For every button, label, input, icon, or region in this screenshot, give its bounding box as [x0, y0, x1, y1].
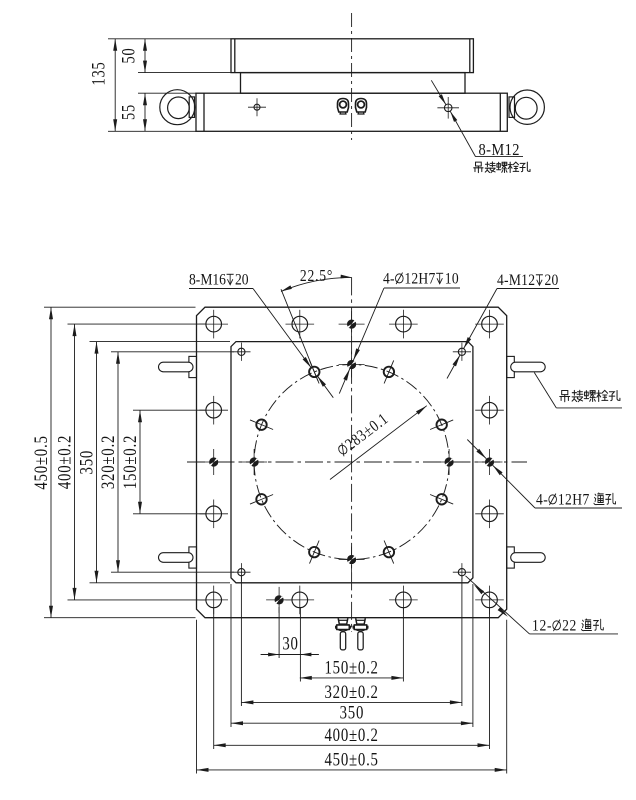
- svg-text:20: 20: [545, 272, 559, 289]
- extension lines 320 left: [111, 351, 234, 353]
- label d283±0.1 bolt circle diameter with radial arrow: [330, 406, 427, 480]
- svg-text:4-M12: 4-M12: [497, 272, 535, 289]
- hole 4-d12H7 depth10 (W, on bolt circle): [241, 449, 267, 475]
- hole 12-d22 through #5: [389, 310, 418, 339]
- hole 12-d22 through #12: [475, 500, 504, 529]
- leader 8-M12 lifting bolt holes (side view): [431, 80, 523, 156]
- hole 4-M12 depth20 #4: [453, 563, 471, 581]
- hole 12-d22 through #4: [286, 586, 315, 615]
- extension lines 450 bottom: [196, 620, 198, 774]
- dimension 30 (bottom, d12H7 offset): [261, 633, 319, 657]
- svg-text:320±0.2: 320±0.2: [324, 681, 378, 702]
- svg-text:150±0.2: 150±0.2: [324, 657, 378, 678]
- svg-text:30: 30: [282, 633, 298, 654]
- side view: left eyebolt: [160, 90, 195, 125]
- svg-text:22: 22: [562, 618, 577, 635]
- plan: inner square 350x350 (rotary platform) with chamfered corners: [231, 342, 473, 583]
- dimension 50 (upper block height): [118, 39, 231, 73]
- svg-text:4-: 4-: [536, 492, 548, 509]
- svg-text:12-: 12-: [532, 618, 552, 635]
- svg-text:400±0.2: 400±0.2: [324, 724, 378, 745]
- label 4-d12H7 depth10 with leader: [339, 271, 460, 394]
- side view: right grease nipple: [356, 99, 367, 115]
- hole 4-d12H7 through (top): [339, 311, 365, 337]
- extension lines 350 left: [90, 341, 231, 343]
- label lifting bolt holes CJK (side view): [474, 162, 530, 173]
- label 4-M12 depth20 with leader: [447, 272, 559, 378]
- hole 8-M16 depth20 #7 on bolt circle: [250, 420, 273, 430]
- svg-text:50: 50: [118, 48, 139, 64]
- dimension 400±0.2 (left): [54, 324, 77, 600]
- dimension 150±0.2 (left): [119, 410, 142, 514]
- hole 12-d22 through #7: [475, 310, 504, 339]
- svg-text:20: 20: [235, 272, 249, 289]
- lifting bolt handle (right bottom): [507, 547, 546, 568]
- hole 4-M12 depth20 #3: [232, 563, 250, 581]
- side view: small hole on slab: [248, 98, 266, 116]
- extension lines 30: [278, 607, 280, 658]
- svg-text:10: 10: [445, 271, 459, 288]
- svg-text:22.5°: 22.5°: [300, 267, 333, 286]
- svg-text:350: 350: [76, 450, 97, 475]
- svg-text:4-: 4-: [383, 271, 395, 288]
- side view: middle plate: [241, 73, 466, 94]
- side view: 8-M12 lifting bolt hole: [437, 97, 459, 119]
- hole 8-M16 depth20 #2 on bolt circle: [430, 420, 453, 430]
- svg-text:55: 55: [118, 104, 139, 120]
- 22.5 degree arc dimension: [281, 267, 352, 292]
- hole 4-d12H7 through (right): [477, 449, 503, 475]
- svg-text:450±0.5: 450±0.5: [324, 749, 378, 770]
- hole 8-M16 depth20 #3 on bolt circle: [430, 494, 453, 504]
- hole 8-M16 depth20 #8 on bolt circle: [309, 360, 319, 383]
- hole 12-d22 through #10: [475, 396, 504, 425]
- label 4-d12H7 through hole with leader: [467, 440, 622, 509]
- svg-text:8-M12: 8-M12: [479, 141, 520, 159]
- hole 12-d22 through #11: [199, 500, 228, 529]
- extension lines 450 left: [44, 306, 196, 308]
- dimension 450±0.5 (bottom): [197, 749, 507, 772]
- dimension 150±0.2 (bottom): [300, 657, 404, 680]
- hole 4-M12 depth20 #2: [453, 343, 471, 361]
- side view: left grease nipple: [338, 99, 349, 115]
- hole 12-d22 through #1: [199, 310, 228, 339]
- side view: base slab: [196, 93, 507, 131]
- hole 4-d12H7 depth10 (E, on bolt circle): [436, 449, 462, 475]
- grease plug (left, plan bottom): [335, 618, 351, 650]
- extension lines 350 bottom: [230, 584, 232, 727]
- dimension 320±0.2 (left): [97, 352, 120, 572]
- hole 8-M16 depth20 #1 on bolt circle: [384, 360, 394, 383]
- dimension 55 (slab height): [118, 93, 196, 131]
- svg-text:150±0.2: 150±0.2: [119, 435, 140, 489]
- plan: vertical centerline: [351, 277, 353, 632]
- hole 12-d22 through #8: [475, 586, 504, 615]
- hole 4-M12 depth20 #1: [232, 343, 250, 361]
- side view: vertical centerline: [351, 13, 353, 140]
- hole 4-d12H7 depth10 (N, on bolt circle): [339, 352, 365, 378]
- label 8-M12 (side view): [479, 141, 520, 159]
- plan: outer plate 450x450 with chamfered corners: [197, 307, 507, 618]
- hole 12-d22 through #3: [286, 310, 315, 339]
- extension lines 400 bottom: [213, 608, 215, 749]
- 22.5 degree radial line: [281, 289, 318, 381]
- hole 12-d22 through #9: [199, 396, 228, 425]
- svg-text:350: 350: [340, 702, 365, 723]
- svg-text:12H7: 12H7: [404, 271, 435, 288]
- extension lines 150 left: [133, 409, 206, 411]
- plan: horizontal centerline: [187, 461, 527, 463]
- label 12-d22 through hole with leader: [466, 576, 619, 635]
- dimension 135 (side view overall height): [88, 39, 231, 132]
- label 8-M16 depth20 with leader: [189, 272, 333, 398]
- side view: upper block (rotary platform): [231, 39, 473, 73]
- dimension 350 (left): [76, 342, 99, 583]
- hole 4-d12H7 depth10 (S, on bolt circle): [339, 547, 365, 573]
- svg-text:12H7: 12H7: [558, 492, 590, 509]
- dimension 450±0.5 (left): [30, 307, 53, 618]
- svg-text:135: 135: [88, 62, 109, 86]
- lifting bolt handle (left top): [159, 356, 197, 377]
- extension line 150 bottom right: [402, 607, 404, 682]
- svg-text:8-M16: 8-M16: [189, 272, 226, 289]
- extension lines 320 bottom: [240, 576, 242, 706]
- lifting bolt handle (right top): [507, 356, 546, 377]
- hole 8-M16 depth20 #6 on bolt circle: [250, 494, 273, 504]
- hole 8-M16 depth20 #5 on bolt circle: [309, 541, 319, 564]
- svg-text:320±0.2: 320±0.2: [97, 435, 118, 489]
- svg-text:450±0.5: 450±0.5: [30, 435, 51, 489]
- extension lines 400 left: [68, 323, 207, 325]
- hole 12-d22 through #2: [199, 586, 228, 615]
- grease plug (right, plan bottom): [353, 618, 369, 650]
- lifting bolt handle (left bottom): [159, 547, 197, 568]
- dimension 400±0.2 (bottom): [214, 724, 490, 747]
- svg-text:400±0.2: 400±0.2: [54, 435, 75, 489]
- plan: bolt circle diameter 283 (dash-dot): [254, 365, 449, 560]
- dimension 320±0.2 (bottom): [241, 681, 462, 704]
- hole 12-d22 through #6: [389, 586, 418, 615]
- hole 4-d12H7 through (left): [201, 449, 227, 475]
- dimension 350 (bottom): [231, 702, 473, 725]
- label diao-zhuang-luo-shuan-kong (lifting bolt hole, right): [534, 373, 622, 408]
- side view: right eyebolt: [509, 90, 544, 124]
- hole 4-d12H7 through (bottom, offset 30): [266, 587, 292, 613]
- hole 8-M16 depth20 #4 on bolt circle: [384, 541, 394, 564]
